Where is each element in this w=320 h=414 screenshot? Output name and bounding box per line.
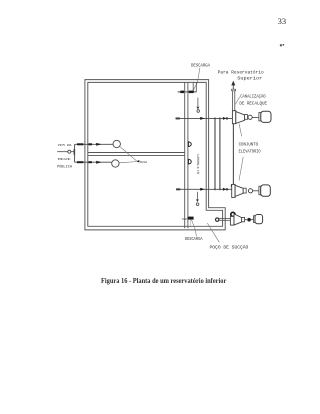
svg-text:DESCARGA: DESCARGA	[185, 237, 203, 242]
pump U3 coupling	[247, 218, 251, 222]
pump U1 gland box	[245, 115, 248, 120]
stray scan mark	[280, 44, 284, 46]
svg-text:VEM DA: VEM DA	[58, 144, 72, 148]
pump U3 riser donut	[231, 212, 235, 216]
divider wall	[88, 153, 185, 156]
pump U2 cone	[235, 185, 243, 196]
label VEM DA REDE PUBLICA	[57, 144, 73, 169]
inlet supply vertical	[74, 144, 76, 162]
descarga drop pipe	[193, 83, 196, 93]
svg-text:ELEVATÓRIO: ELEVATÓRIO	[239, 150, 261, 155]
esgoto valve	[188, 217, 194, 227]
tank inner wall	[88, 82, 223, 226]
svg-text:33: 33	[278, 16, 287, 26]
pump U1 cone	[236, 112, 245, 124]
leader conjunto to pump2	[239, 157, 243, 181]
discharge manifold pump1 to pump2	[231, 124, 235, 187]
overflow tab lower	[188, 159, 191, 164]
pump U3 shaft right	[251, 219, 254, 221]
label ESGOTO	[182, 217, 188, 221]
leader boia2	[119, 162, 136, 163]
leader boia1	[120, 147, 137, 161]
tank outer wall	[85, 80, 225, 230]
pump U2 flange	[232, 184, 235, 197]
label Para Reservatorio Superior	[218, 69, 264, 81]
pump U2 gland box	[243, 188, 246, 193]
svg-text:BOIA: BOIA	[140, 161, 148, 165]
pump U1 shaft	[252, 116, 259, 118]
leader descarga bottom	[192, 220, 197, 237]
suction well pipe to pump3	[219, 219, 231, 221]
canaleta flow arrow upper	[197, 98, 200, 113]
pump U3 gland box	[242, 217, 245, 221]
label BOIA	[136, 160, 148, 165]
leader descarga top	[193, 68, 200, 91]
pump U1 coupling	[248, 115, 252, 119]
pump U3 shaft left	[245, 219, 248, 221]
suction well inlet circle	[216, 218, 219, 221]
svg-text:POÇO DE SUCÇÃO: POÇO DE SUCÇÃO	[210, 246, 249, 251]
inlet branch upper	[75, 143, 113, 146]
interconnect pipe between suction lines	[215, 118, 220, 189]
svg-text:ESGOTO: ESGOTO	[182, 217, 188, 221]
figure caption	[101, 277, 226, 285]
inlet entry arrow	[57, 149, 75, 155]
label POCO DE SUCCAO	[210, 246, 249, 251]
svg-text:CONJUNTO: CONJUNTO	[239, 142, 259, 147]
label DESCARGA bottom	[185, 237, 203, 242]
svg-text:Para Reservatório: Para Reservatório	[218, 69, 264, 75]
inlet branch lower	[75, 161, 112, 164]
svg-text:Figura 16 - Planta de um reser: Figura 16 - Planta de um reservatório in…	[101, 277, 226, 285]
descarga valve right	[189, 91, 194, 94]
svg-text:CANALIZAÇÃO: CANALIZAÇÃO	[240, 95, 266, 100]
leader poco de succao	[207, 223, 219, 242]
descarga horizontal pipe	[178, 91, 197, 93]
label CONJUNTO ELEVATORIO	[239, 142, 261, 154]
pump U3 motor	[254, 215, 263, 224]
float ball B1	[113, 140, 120, 147]
canaleta flow arrow lower	[196, 192, 199, 206]
overflow tab upper	[188, 142, 191, 147]
leader canalizacao	[235, 97, 239, 105]
label DESCARGA top	[191, 63, 210, 68]
descarga valve left	[180, 91, 184, 94]
page number 33	[278, 16, 287, 26]
suction line 1	[176, 117, 233, 120]
pump U1 motor	[259, 111, 271, 122]
pump U3 flange	[230, 216, 234, 225]
label CANALIZACAO DE RECALQUE	[239, 95, 267, 107]
leader conjunto to pump1	[239, 123, 242, 136]
canaleta left wall	[185, 82, 188, 228]
pump U2 coupling	[248, 189, 252, 193]
svg-text:Superior: Superior	[237, 75, 262, 81]
svg-text:CANALETA: CANALETA	[195, 154, 199, 175]
riser pipe (canalizacao de recalque)	[232, 89, 236, 111]
pump U1 flange	[232, 111, 235, 124]
label CANALETA vertical	[195, 154, 199, 175]
riser up arrow	[231, 81, 235, 90]
svg-text:DE RECALQUE: DE RECALQUE	[239, 102, 267, 107]
float ball B2	[112, 160, 119, 167]
suction line 2	[176, 188, 232, 191]
svg-text:PÚBLICA: PÚBLICA	[57, 164, 73, 169]
svg-text:REDE: REDE	[58, 158, 72, 162]
pump U2 shaft	[253, 190, 259, 192]
svg-text:DESCARGA: DESCARGA	[191, 63, 210, 68]
pump U3 cone	[234, 214, 242, 225]
pump U2 motor	[259, 185, 270, 196]
